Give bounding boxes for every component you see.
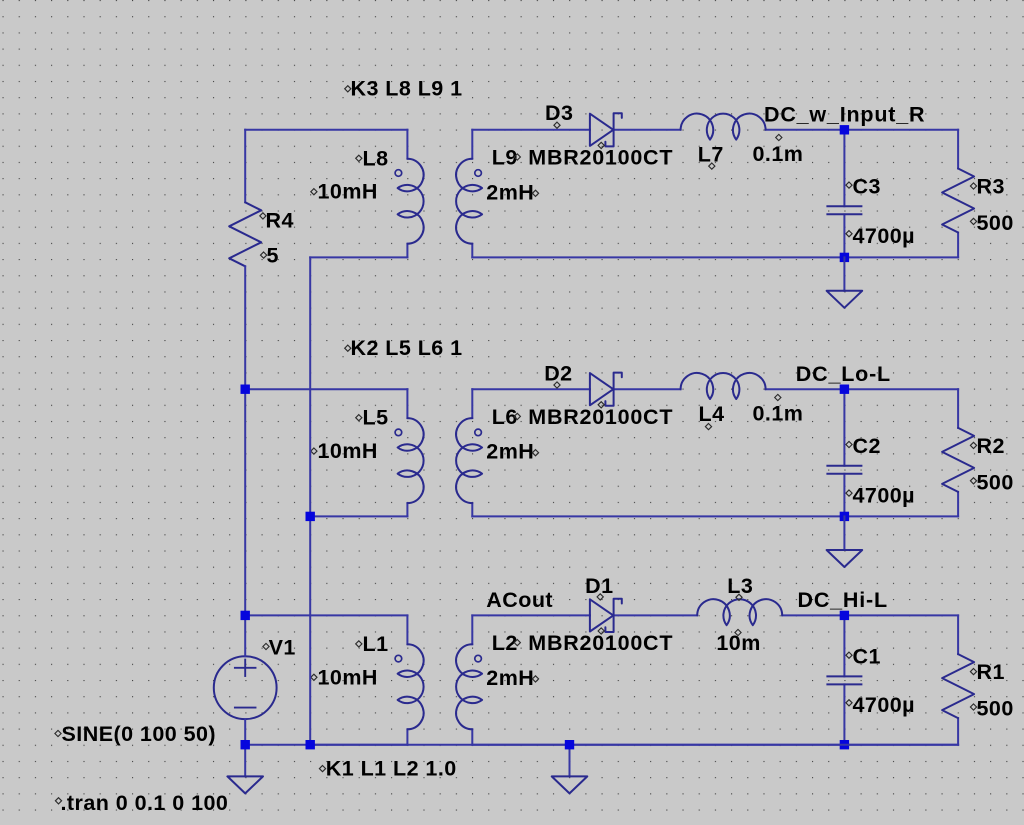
wire stage1 right branch down bbox=[957, 130, 959, 169]
svg-text:500: 500 bbox=[977, 697, 1014, 721]
wire V1 bottom lead bbox=[244, 719, 246, 745]
svg-text:MBR20100CT: MBR20100CT bbox=[528, 405, 673, 429]
capacitor C2 bbox=[827, 465, 861, 467]
phase dot L1 bbox=[395, 655, 402, 662]
phase dot L9 bbox=[475, 170, 482, 177]
wire stage1 secondary top to diode anode bbox=[472, 129, 590, 131]
svg-text:R1: R1 bbox=[977, 660, 1005, 684]
svg-text:C3: C3 bbox=[853, 175, 881, 199]
wire mid trunk bbox=[309, 257, 311, 744]
svg-text:K2 L5 L6 1: K2 L5 L6 1 bbox=[351, 336, 463, 360]
transformer secondary inductor L9 bbox=[456, 159, 482, 244]
diode anchor diamond D3 bbox=[598, 142, 604, 148]
ground stage1 bbox=[843, 257, 845, 290]
label C3 bbox=[846, 182, 852, 188]
V1 minus sign bbox=[235, 707, 256, 709]
transformer primary inductor L1 bbox=[398, 644, 424, 729]
svg-text:R2: R2 bbox=[977, 434, 1005, 458]
value 10mH of L1 bbox=[311, 674, 317, 680]
ground at bottom rail bbox=[569, 745, 571, 777]
wire stage3 secondary coil bottom lead bbox=[471, 729, 473, 744]
mutual inductance directive K3 bbox=[345, 86, 351, 92]
svg-text:.tran 0 0.1 0 100: .tran 0 0.1 0 100 bbox=[61, 791, 229, 815]
svg-text:5: 5 bbox=[267, 244, 279, 268]
wire stage3 primary bottom bbox=[310, 744, 407, 746]
wire stage2 capacitor stub top bbox=[843, 389, 845, 466]
diode anchor diamond D2 bbox=[598, 402, 604, 408]
phase dot L5 bbox=[395, 429, 402, 436]
wire stage3 secondary coil top lead bbox=[471, 615, 473, 644]
junction node DC_Hi-L bbox=[840, 611, 849, 620]
voltage source V1 bbox=[214, 656, 277, 719]
wire stage2 secondary coil top lead bbox=[471, 389, 473, 418]
svg-text:C1: C1 bbox=[853, 645, 881, 669]
label V1 bbox=[263, 643, 269, 649]
wire stage2 right branch down bbox=[957, 389, 959, 428]
junction stage2 primary bottom bbox=[306, 512, 315, 521]
wire stage1 primary top bbox=[245, 129, 407, 131]
series inductor L4 bbox=[681, 373, 766, 399]
svg-text:K3 L8 L9 1: K3 L8 L9 1 bbox=[351, 77, 463, 101]
series inductor L3 bbox=[697, 599, 782, 625]
svg-text:ACout: ACout bbox=[486, 588, 553, 612]
junction stage3 bottom at capacitor bbox=[840, 740, 849, 749]
wire stage2 primary top bbox=[245, 388, 407, 390]
capacitor C3 bbox=[827, 205, 861, 207]
wire left trunk top segment bbox=[244, 130, 246, 203]
mutual inductance directive K2 bbox=[345, 345, 351, 351]
label R1 bbox=[970, 669, 976, 675]
wire stage1 primary coil top lead bbox=[406, 130, 408, 159]
svg-text:L7: L7 bbox=[698, 143, 724, 167]
wire stage1 capacitor stub bottom bbox=[843, 214, 845, 257]
svg-text:MBR20100CT: MBR20100CT bbox=[528, 146, 673, 170]
svg-text:4700µ: 4700µ bbox=[853, 693, 915, 717]
transformer primary inductor L8 bbox=[398, 159, 424, 244]
diode D3 schottky bbox=[590, 114, 613, 146]
wire stage2 primary coil bottom lead bbox=[406, 503, 408, 516]
value 10mH of L8 bbox=[311, 189, 317, 195]
svg-text:L5: L5 bbox=[363, 406, 389, 430]
phase dot L6 bbox=[475, 429, 482, 436]
svg-text:L1: L1 bbox=[363, 632, 389, 656]
svg-text:2mH: 2mH bbox=[486, 180, 534, 204]
wire stage1 primary bottom bbox=[310, 256, 407, 258]
svg-text:L4: L4 bbox=[699, 402, 725, 426]
value 500 of R3 bbox=[970, 218, 976, 224]
wire stage1 capacitor stub top bbox=[843, 130, 845, 207]
mutual inductance directive K1 bbox=[319, 766, 325, 772]
resistor R2 bbox=[942, 428, 974, 492]
wire stage2 primary bottom bbox=[310, 515, 407, 517]
wire stage3 secondary top to diode anode bbox=[472, 614, 590, 616]
resistor R1 bbox=[942, 654, 974, 718]
svg-text:K1 L1 L2 1.0: K1 L1 L2 1.0 bbox=[326, 757, 457, 781]
ground stage2 bbox=[843, 516, 845, 550]
svg-text:DC_Hi-L: DC_Hi-L bbox=[798, 588, 888, 612]
wire stage3 primary top bbox=[245, 614, 407, 616]
capacitor C1 bbox=[827, 675, 861, 677]
label C1 bbox=[846, 652, 852, 658]
svg-text:10mH: 10mH bbox=[318, 665, 378, 689]
label R3 bbox=[970, 183, 976, 189]
diode D1 schottky bbox=[590, 599, 613, 631]
svg-text:4700µ: 4700µ bbox=[853, 224, 915, 248]
svg-text:0.1m: 0.1m bbox=[753, 401, 804, 425]
diode D2 schottky bbox=[590, 373, 613, 405]
value 4700u of C2 bbox=[846, 490, 852, 496]
svg-text:L3: L3 bbox=[727, 574, 753, 598]
wire left trunk stage2 to stage3 bbox=[244, 389, 246, 615]
junction mid trunk bottom bbox=[306, 740, 315, 749]
wire stage2 capacitor stub bottom bbox=[843, 474, 845, 517]
phase dot L2 bbox=[475, 655, 482, 662]
svg-text:D3: D3 bbox=[545, 101, 573, 125]
V1 plus sign bbox=[235, 667, 256, 669]
spice directive .tran bbox=[55, 798, 61, 804]
junction stage1 bottom at capacitor bbox=[840, 253, 849, 262]
label R2 bbox=[970, 442, 976, 448]
junction stage3 left / V1 top bbox=[241, 611, 250, 620]
svg-text:10mH: 10mH bbox=[318, 439, 378, 463]
phase dot L8 bbox=[395, 170, 402, 177]
svg-text:R3: R3 bbox=[977, 175, 1005, 199]
wire stage2 secondary top to diode anode bbox=[472, 388, 590, 390]
wire stage3 primary coil bottom lead bbox=[406, 729, 408, 744]
label L5 bbox=[356, 415, 362, 421]
wire V1 top lead bbox=[244, 615, 246, 656]
svg-text:4700µ: 4700µ bbox=[853, 484, 915, 508]
wire stage1 series inductor to node bbox=[766, 129, 959, 131]
svg-text:C2: C2 bbox=[853, 434, 881, 458]
svg-text:DC_w_Input_R: DC_w_Input_R bbox=[764, 102, 925, 126]
wire stage3 capacitor stub bottom bbox=[843, 684, 845, 744]
wire stage3 secondary bottom bbox=[472, 744, 958, 746]
svg-text:MBR20100CT: MBR20100CT bbox=[528, 631, 673, 655]
transformer secondary inductor L2 bbox=[456, 644, 482, 729]
svg-text:DC_Lo-L: DC_Lo-L bbox=[796, 362, 891, 386]
value 4700u of C1 bbox=[846, 700, 852, 706]
wire stage3 diode cathode to series inductor bbox=[614, 614, 698, 616]
value 10mH of L5 bbox=[311, 448, 317, 454]
junction stage2 bottom at capacitor bbox=[840, 512, 849, 521]
svg-text:10mH: 10mH bbox=[318, 180, 378, 204]
wire stage1 secondary bottom bbox=[472, 256, 958, 258]
svg-text:2mH: 2mH bbox=[486, 666, 534, 690]
transformer primary inductor L5 bbox=[398, 418, 424, 503]
label C2 bbox=[846, 441, 852, 447]
wire R4 bottom to stage2 junction bbox=[244, 266, 246, 389]
label L1 bbox=[356, 641, 362, 647]
wire stage3 right branch down bbox=[957, 615, 959, 654]
ground at V1 bbox=[244, 745, 246, 777]
svg-text:500: 500 bbox=[977, 470, 1014, 494]
value SINE(0 100 50) of V1 bbox=[55, 730, 61, 736]
wire stage1 secondary coil top lead bbox=[471, 130, 473, 159]
wire bottom rail bbox=[245, 744, 958, 746]
svg-text:L8: L8 bbox=[363, 146, 389, 170]
value 4700u of C3 bbox=[846, 231, 852, 237]
wire stage1 secondary coil bottom lead bbox=[471, 244, 473, 258]
diode anchor diamond D1 bbox=[598, 628, 604, 634]
label R4 bbox=[260, 213, 266, 219]
wire stage3 capacitor stub top bbox=[843, 615, 845, 676]
series inductor L7 bbox=[681, 114, 766, 140]
svg-text:SINE(0 100 50): SINE(0 100 50) bbox=[62, 722, 217, 746]
svg-text:2mH: 2mH bbox=[486, 440, 534, 464]
svg-text:R4: R4 bbox=[266, 208, 294, 232]
wire stage2 secondary coil bottom lead bbox=[471, 503, 473, 516]
svg-text:V1: V1 bbox=[269, 636, 296, 660]
value 500 of R2 bbox=[970, 478, 976, 484]
wire stage2 primary coil top lead bbox=[406, 389, 408, 418]
wire stage2 series inductor to node bbox=[766, 388, 959, 390]
resistor R4 bbox=[229, 202, 261, 266]
wire stage1 diode cathode to series inductor bbox=[614, 129, 681, 131]
value 5 of R4 bbox=[261, 252, 267, 258]
label L8 bbox=[356, 155, 362, 161]
svg-text:0.1m: 0.1m bbox=[753, 142, 804, 166]
junction bottom rail ground bbox=[565, 740, 574, 749]
junction stage2 left bbox=[241, 385, 250, 394]
wire stage2 secondary bottom bbox=[472, 515, 958, 517]
junction node DC_w_Input_R bbox=[840, 125, 849, 134]
wire stage2 diode cathode to series inductor bbox=[614, 388, 681, 390]
wire stage3 primary coil top lead bbox=[406, 615, 408, 644]
svg-text:500: 500 bbox=[977, 211, 1014, 235]
value 500 of R1 bbox=[970, 704, 976, 710]
resistor R3 bbox=[942, 169, 974, 233]
svg-text:D2: D2 bbox=[544, 362, 572, 386]
transformer secondary inductor L6 bbox=[456, 418, 482, 503]
wire stage3 series inductor to node bbox=[782, 614, 958, 616]
junction node DC_Lo-L bbox=[840, 385, 849, 394]
junction V1 bottom bbox=[241, 740, 250, 749]
wire stage1 primary coil bottom lead bbox=[406, 244, 408, 258]
